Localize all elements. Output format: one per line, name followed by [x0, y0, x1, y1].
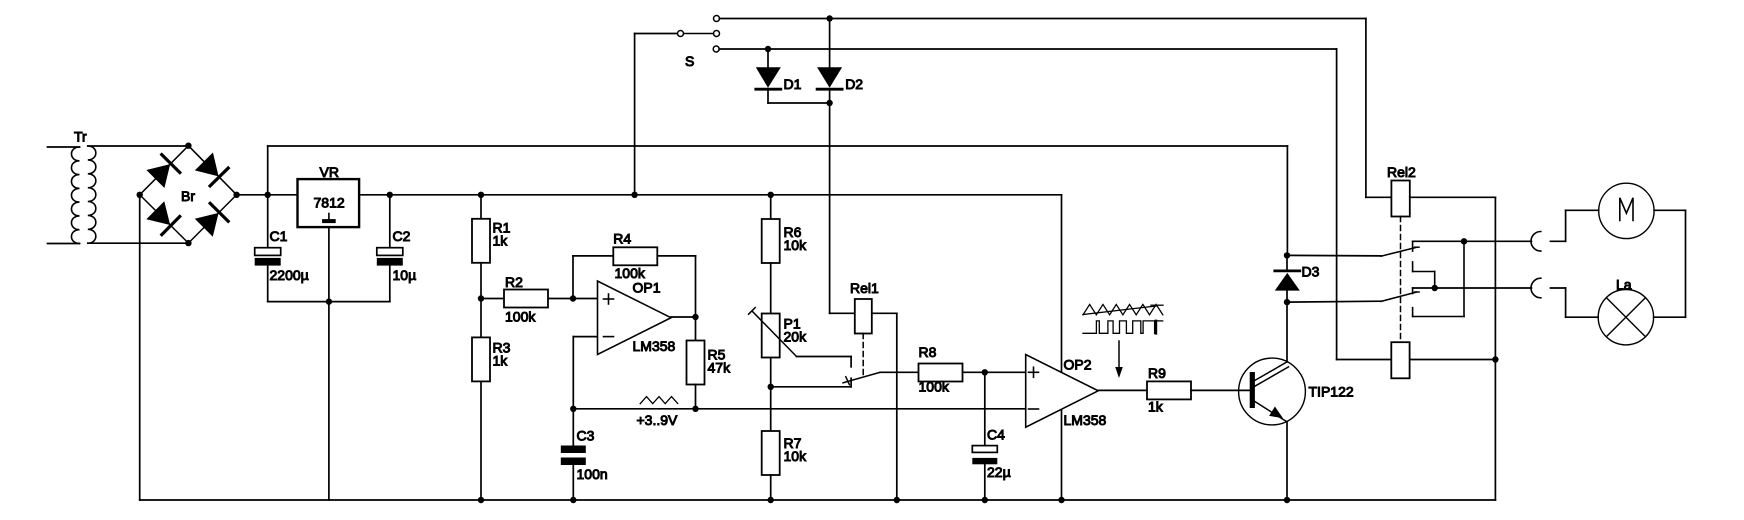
capacitor C2 [377, 248, 403, 256]
relay coil Rel2 [1391, 181, 1409, 217]
switch S lever end terminal [714, 31, 720, 37]
sawtooth symbol at +3..9V [640, 397, 678, 404]
resistor R4 [613, 247, 657, 265]
wire C4 bottom [984, 464, 986, 500]
svg-text:OP1: OP1 [633, 279, 661, 295]
connector X1 (motor feed) [1531, 232, 1541, 252]
svg-text:Rel2: Rel2 [1387, 164, 1416, 180]
node bridge minus left [137, 192, 143, 198]
resistor R5 [687, 341, 705, 385]
transformer Tr primary winding [71, 147, 79, 244]
wire R2 to OP1+ [548, 298, 598, 300]
wire blade to R8 [880, 371, 919, 373]
node emitter on rail [1284, 497, 1290, 503]
svg-text:100k: 100k [505, 309, 536, 325]
wire R4 right lead [657, 255, 695, 257]
resistor R8 [919, 364, 963, 382]
ramp line symbol [1083, 306, 1156, 315]
wire rail to R6 [770, 195, 772, 219]
wire R2 left [481, 298, 504, 300]
wire collector up to D3 [1286, 302, 1288, 362]
bridge diode (left-bottom) [146, 201, 179, 234]
transistor Q1 emitter [1255, 402, 1287, 422]
wire D3 top to contact [1287, 254, 1381, 257]
wire D3 top stub [1286, 255, 1288, 269]
wire secondary top to bridge [88, 145, 189, 147]
Rel2 actuator dashed link [1400, 217, 1402, 341]
wire VR ground down [328, 227, 330, 500]
node C3 bottom [570, 497, 576, 503]
wire R6 to P1 [770, 263, 772, 314]
svg-text:10k: 10k [784, 237, 808, 253]
wire R8 to OP2+ [963, 371, 1026, 373]
capacitor C4 [972, 446, 997, 453]
svg-text:R4: R4 [613, 230, 631, 246]
svg-text:1k: 1k [1148, 398, 1164, 414]
switch S common terminal [678, 31, 684, 37]
transformer Tr primary top lead [48, 146, 80, 148]
wire R4 down to output [695, 256, 697, 317]
transistor Q1 circle [1239, 358, 1306, 425]
wire secondary bottom to bridge [88, 242, 189, 244]
OP2 plus sign [1029, 371, 1039, 373]
svg-text:47k: 47k [708, 360, 732, 376]
bridge diode (bottom-right) [195, 203, 228, 236]
node bridge AC top [185, 143, 191, 149]
wire S top throw net [720, 18, 1366, 20]
resistor R2 [504, 290, 548, 308]
node C4 bottom [982, 497, 988, 503]
node P1 bottom junction [768, 384, 774, 390]
OP1 plus sign [604, 298, 614, 300]
arrow to OP2 [1118, 341, 1120, 368]
svg-text:1k: 1k [493, 232, 509, 248]
capacitor C1 [255, 248, 281, 256]
transformer Tr primary bottom lead [48, 243, 80, 245]
svg-text:R8: R8 [919, 344, 937, 360]
svg-text:R9: R9 [1148, 365, 1166, 381]
Rel2 lower NO contact stub [1412, 288, 1414, 294]
wire OP2 output [1098, 389, 1147, 391]
connector X2 (lamp feed) [1531, 278, 1541, 298]
wire lower contact output [1413, 287, 1532, 289]
Rel1 actuator dashed link [862, 334, 864, 378]
svg-text:C1: C1 [270, 228, 288, 244]
node R1-R3-R2 junction [478, 295, 484, 301]
svg-text:20k: 20k [784, 328, 808, 344]
svg-text:C3: C3 [577, 427, 595, 443]
wire M right loop [1654, 209, 1685, 211]
diode D3 [1275, 269, 1300, 272]
Rel2 upper NO contact stub [1412, 241, 1414, 251]
node Rel1 right on rail [894, 497, 900, 503]
node R3 bottom [478, 497, 484, 503]
svg-text:Br: Br [181, 188, 195, 204]
svg-text:2200µ: 2200µ [270, 267, 309, 283]
node Rel2 return junction [1492, 356, 1498, 362]
Rel2 upper NC contact path [1412, 262, 1414, 272]
svg-text:C2: C2 [393, 228, 411, 244]
wire VR output [359, 194, 1061, 196]
wire S bottom throw net [719, 48, 1336, 50]
resistor R9 [1147, 381, 1191, 399]
wire P1 bottom line [771, 386, 851, 388]
wire raw+ up from VR input node [267, 146, 269, 195]
triangle wave symbol [1083, 304, 1163, 314]
OP1 minus sign [604, 336, 614, 338]
svg-text:LM358: LM358 [1064, 412, 1107, 428]
node 12V down-wire bottom [1058, 497, 1064, 503]
switch S throw bottom terminal [713, 46, 719, 52]
transistor Q1 collector lines [1255, 362, 1287, 381]
Rel2 lower blade [1381, 292, 1416, 301]
svg-text:D2: D2 [845, 76, 863, 92]
wire S top net down to Rel2 [1365, 19, 1367, 198]
node VR ground junction [326, 298, 332, 304]
wire emitter down to rail [1286, 422, 1288, 500]
node VR output [387, 192, 393, 198]
bridge Br diamond edges [140, 146, 189, 195]
wire raw+ horizontal [268, 145, 1288, 147]
wire OP1 output [671, 316, 696, 318]
op-amp OP2 [1026, 355, 1099, 428]
resistor R7 [762, 431, 780, 475]
wire D1 bottom lead [767, 91, 769, 103]
node lower output junction [1432, 285, 1438, 291]
node D1 top [765, 46, 771, 52]
Rel2 upper blade [1381, 247, 1416, 256]
transistor Q1 base bar [1250, 372, 1255, 408]
svg-text:22µ: 22µ [987, 464, 1011, 480]
wire P1 to R7 [770, 358, 772, 432]
wire OP1 minus down to C3 node [572, 337, 574, 446]
resistor R3 [472, 337, 490, 381]
Rel1 contact blade [843, 372, 880, 383]
wire C4 top [984, 372, 986, 445]
node upper output junction [1461, 238, 1467, 244]
switch S throw top terminal [714, 16, 720, 22]
motor M circle [1599, 183, 1654, 238]
node C3 / OP1 minus junction [570, 406, 576, 412]
wire C3 bottom [572, 465, 574, 500]
wire D3 bottom to contact [1287, 300, 1381, 303]
svg-text:D1: D1 [784, 76, 802, 92]
wire R5 top [695, 317, 697, 341]
wire raw+ down to D3 [1286, 146, 1288, 255]
svg-text:LM358: LM358 [633, 338, 676, 354]
node R1 top [478, 192, 484, 198]
node R7 bottom [768, 497, 774, 503]
motor M letter [1620, 198, 1633, 221]
node bridge AC bottom [185, 240, 191, 246]
wire bridge minus down [139, 195, 141, 500]
node OP1 output [692, 314, 698, 320]
svg-text:10µ: 10µ [393, 267, 417, 283]
lamp La circle [1598, 290, 1653, 345]
wire connector X1 right [1551, 240, 1566, 242]
diode D2 [817, 67, 842, 87]
wire +3..9V net [573, 408, 1025, 410]
node OP1+ input [570, 295, 576, 301]
resistor R1 [472, 219, 490, 263]
svg-text:Rel1: Rel1 [850, 280, 879, 296]
svg-text:100k: 100k [919, 379, 950, 395]
svg-text:VR: VR [320, 164, 339, 180]
node D2 top [826, 15, 832, 21]
bridge diode (left-top) [146, 155, 179, 188]
square wave symbol [1083, 321, 1155, 333]
node C4 junction [982, 369, 988, 375]
wire R4 branch up [572, 256, 574, 299]
wire R5 bottom [695, 385, 697, 409]
transformer Tr secondary winding [88, 146, 96, 243]
voltage regulator VR box [298, 179, 360, 227]
wire R7 to rail [770, 475, 772, 500]
switch S lever [684, 33, 714, 35]
wire C2 bottom [389, 266, 391, 302]
node D3 top [1284, 252, 1290, 258]
node bridge plus right [233, 192, 239, 198]
wire R9 to base [1191, 389, 1250, 391]
wire Rel2 coil right [1410, 196, 1496, 198]
diode D1 [756, 67, 781, 87]
wire R1 to R3 [480, 263, 482, 338]
potentiometer P1 [762, 314, 780, 358]
svg-text:La: La [1616, 276, 1632, 292]
wire S bottom net down [1336, 49, 1338, 360]
wire Rel1 right [872, 312, 897, 314]
wire connector X2 right [1551, 287, 1566, 289]
relay contact box Rel2b [1391, 342, 1409, 378]
svg-text:C4: C4 [987, 427, 1005, 443]
wire C2 top [389, 195, 391, 248]
Rel2 lower NC contact path [1463, 241, 1465, 316]
wire C1 bottom [267, 266, 269, 302]
wire D3 bottom stub [1286, 291, 1288, 303]
P1 wiper arrow [752, 311, 797, 357]
op-amp OP1 [598, 281, 672, 355]
node D1-D2 join [826, 100, 832, 106]
svg-text:7812: 7812 [314, 195, 345, 211]
bridge diode (top-right) [195, 153, 228, 186]
svg-text:S: S [685, 53, 694, 69]
wire P1 wiper line [797, 356, 852, 358]
VR ground pin symbol [328, 214, 330, 220]
OP2 minus sign [1029, 408, 1039, 410]
svg-text:TIP122: TIP122 [1309, 383, 1354, 399]
wire upper contact output [1413, 240, 1532, 242]
wire C1 top [267, 195, 269, 248]
capacitor C3 [561, 446, 586, 454]
lamp La cross [1606, 298, 1645, 337]
wire rail to R1 [480, 195, 482, 219]
relay coil Rel1 [855, 299, 872, 334]
wire OP1 minus lead [573, 336, 597, 338]
wire D2 top lead [829, 19, 831, 68]
node R5 bottom junction [692, 406, 698, 412]
node R6 top on rail [768, 192, 774, 198]
wire C1-C2 bottom join [268, 301, 390, 303]
resistor R6 [762, 219, 780, 263]
svg-text:1k: 1k [493, 353, 509, 369]
svg-text:+3..9V: +3..9V [637, 412, 679, 428]
node D3 bottom [1284, 299, 1290, 305]
wire R4 left lead [573, 255, 613, 257]
wire S common down to rail [634, 34, 636, 195]
wire through lower relay box [1337, 359, 1496, 361]
wire D2 down to Rel1 [829, 91, 831, 314]
svg-text:D3: D3 [1302, 263, 1320, 279]
svg-text:R2: R2 [505, 274, 523, 290]
svg-text:10k: 10k [784, 448, 808, 464]
wire D1 top lead [767, 49, 769, 67]
wire R3 to rail [480, 381, 482, 500]
wire bottom rail [140, 499, 1496, 501]
wire bridge+ to VR input [237, 194, 298, 196]
svg-text:100n: 100n [577, 466, 608, 482]
wire into Rel2 coil [1366, 196, 1392, 198]
node VR input [265, 192, 271, 198]
node S common on rail [631, 192, 637, 198]
svg-text:OP2: OP2 [1064, 357, 1092, 373]
svg-text:Tr: Tr [74, 129, 87, 145]
wire 12V rail down at right end [1061, 195, 1063, 500]
wire S common left [635, 33, 678, 35]
